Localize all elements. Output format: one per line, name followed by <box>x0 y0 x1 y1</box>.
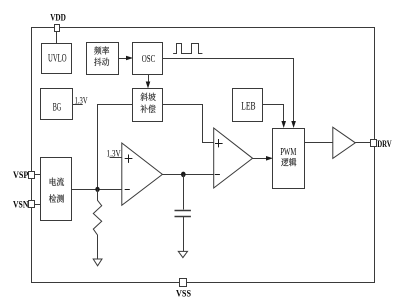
svg-text:UVLO: UVLO <box>48 52 67 64</box>
node B at U1 output <box>181 172 186 178</box>
pin VSN <box>13 200 35 211</box>
clock waveform symbol <box>173 44 202 54</box>
svg-text:VSS: VSS <box>176 289 191 300</box>
wire VSN to current sense block <box>35 204 41 206</box>
wire OSC to slope compensation with arrow <box>146 75 151 89</box>
wire VDD to UVLO <box>56 31 58 43</box>
svg-text:OSC: OSC <box>142 54 156 65</box>
block frequency jitter <box>87 43 119 75</box>
wire PWM to buffer U3 <box>304 142 333 144</box>
block LEB <box>233 89 263 122</box>
comparator U1 <box>122 143 163 205</box>
svg-text:LEB: LEB <box>241 101 256 113</box>
wire U1 output to comparator U2 minus input <box>162 174 213 176</box>
resistor R1 <box>93 189 101 259</box>
svg-text:DRV: DRV <box>377 139 392 150</box>
block UVLO <box>42 44 72 74</box>
capacitor C1 <box>175 175 191 252</box>
wire U2 output to PWM logic with arrow <box>253 156 273 161</box>
wire slope comp to comparator U2 plus input <box>163 105 214 143</box>
block PWM logic <box>273 129 305 189</box>
buffer U3 <box>333 127 356 158</box>
block OSC <box>133 43 163 75</box>
node A summing junction <box>95 187 99 192</box>
net label 1.3V at BG output <box>72 96 87 107</box>
svg-text:VDD: VDD <box>50 14 66 24</box>
svg-text:VSN: VSN <box>13 200 28 211</box>
svg-text:1.3V: 1.3V <box>107 148 121 159</box>
ground for C1 <box>178 251 187 257</box>
pin VDD <box>50 14 66 32</box>
pin VSP <box>13 170 35 181</box>
wire LEB to PWM logic <box>263 105 286 129</box>
svg-text:BG: BG <box>53 101 62 113</box>
block slope compensation <box>133 89 163 122</box>
wire VSP to current sense block <box>35 174 41 176</box>
net label 1.3V at U1 plus input <box>107 148 122 159</box>
pin DRV <box>371 139 392 150</box>
wire jitter to OSC with arrow <box>118 56 133 61</box>
comparator U2 <box>214 128 253 188</box>
wire current sense to comparator U1 minus input <box>72 189 122 191</box>
wire slope comp to summing node A <box>98 105 133 190</box>
IC boundary <box>32 28 375 283</box>
ground for R1 <box>93 259 102 266</box>
svg-text:1.3V: 1.3V <box>75 96 88 107</box>
block current sense <box>41 158 72 221</box>
svg-text:VSP: VSP <box>13 170 28 181</box>
wire buffer to DRV pin <box>355 142 371 144</box>
wire OSC to PWM logic <box>163 59 296 129</box>
block BG <box>41 89 73 120</box>
pin VSS <box>176 279 191 300</box>
svg-text:PWM: PWM <box>280 147 296 158</box>
